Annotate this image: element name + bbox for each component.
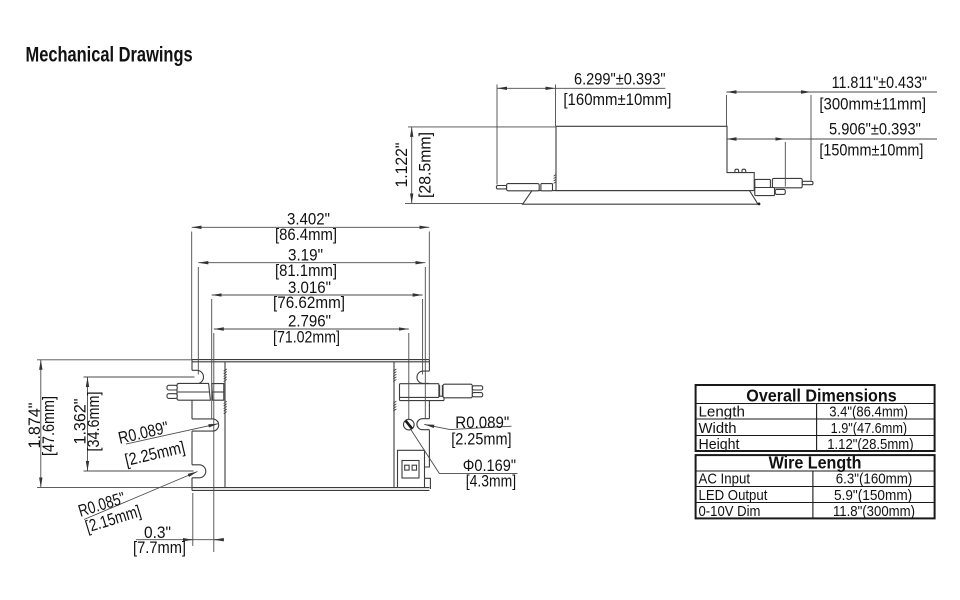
left bottom slot R0.085 bbox=[192, 465, 206, 478]
dim connector inner bbox=[402, 461, 419, 479]
dim line 2.796 bbox=[214, 328, 409, 330]
left wire flange segment divider bbox=[212, 391, 224, 393]
left hook slot bbox=[192, 370, 204, 383]
svg-text:3.4"(86.4mm): 3.4"(86.4mm) bbox=[829, 404, 908, 421]
knurl right edge upper bbox=[393, 369, 396, 382]
svg-text:Length: Length bbox=[699, 404, 745, 421]
knurl left edge upper bbox=[224, 369, 227, 382]
svg-text:5.9"(150mm): 5.9"(150mm) bbox=[834, 487, 912, 504]
svg-text:[47.6mm]: [47.6mm] bbox=[39, 396, 58, 456]
ext 3.016 right bbox=[422, 299, 424, 375]
svg-text:AC Input: AC Input bbox=[699, 471, 751, 488]
dim line 11.811 bbox=[727, 91, 812, 93]
dim block right edge lower bbox=[424, 478, 426, 487]
dim connector pin 1 bbox=[405, 465, 409, 470]
ext line height bottom bbox=[405, 202, 523, 204]
svg-text:[34.6mm]: [34.6mm] bbox=[84, 392, 103, 452]
svg-text:1.12"(28.5mm): 1.12"(28.5mm) bbox=[827, 436, 913, 453]
ext 3.402 right bbox=[428, 232, 430, 360]
dim line 3.016 bbox=[212, 294, 423, 296]
svg-text:11.8"(300mm): 11.8"(300mm) bbox=[833, 503, 915, 520]
left wire flange segment bbox=[212, 384, 224, 401]
svg-text:LED Output: LED Output bbox=[699, 487, 769, 504]
ext 0.3 left bbox=[192, 493, 194, 546]
svg-text:[4.3mm]: [4.3mm] bbox=[466, 471, 516, 490]
dim line 1.362 bbox=[87, 377, 89, 471]
dim line 0.3 bbox=[136, 539, 224, 541]
right lower connector bbox=[755, 188, 775, 196]
svg-text:[160mm±10mm]: [160mm±10mm] bbox=[563, 90, 671, 109]
ext line body right bbox=[726, 95, 728, 126]
svg-text:11.811"±0.433": 11.811"±0.433" bbox=[832, 73, 927, 92]
ext line dim wire tip bbox=[810, 95, 812, 181]
svg-text:[71.02mm]: [71.02mm] bbox=[273, 328, 340, 347]
dim 0.3 arrow right bbox=[214, 539, 223, 541]
dim line 5.906 bbox=[727, 138, 786, 140]
dim 0.3 arrow left bbox=[184, 539, 193, 541]
plate top edge outer bbox=[192, 359, 429, 361]
table 2 frame bbox=[696, 455, 935, 518]
right wire tip 2 bbox=[472, 393, 482, 397]
svg-text:[28.5mm]: [28.5mm] bbox=[416, 132, 435, 198]
dim line 1.874 bbox=[40, 360, 42, 488]
right lower wire tip bbox=[775, 189, 785, 194]
leader R0.089 left bbox=[126, 424, 218, 444]
body right edge bbox=[393, 362, 395, 488]
dim line 3.19 bbox=[198, 262, 425, 264]
ext 2.796 left long bbox=[213, 333, 215, 552]
junction dot bbox=[758, 203, 761, 206]
ext line led wire tip bbox=[784, 142, 786, 187]
svg-text:[76.62mm]: [76.62mm] bbox=[273, 293, 345, 312]
ext 1.362 bottom bbox=[84, 470, 194, 472]
table 2 column divider bbox=[812, 471, 814, 518]
table 1 row lines bbox=[696, 418, 935, 420]
ext 3.016 left bbox=[211, 299, 213, 419]
ext 3.19 right bbox=[424, 267, 426, 419]
ext 1.362 top bbox=[84, 376, 195, 378]
left wire tip 2 bbox=[167, 394, 177, 399]
knurl left edge lower bbox=[224, 401, 227, 414]
svg-text:Overall Dimensions: Overall Dimensions bbox=[746, 386, 897, 406]
ext line height top bbox=[408, 126, 556, 128]
ext 1.874 top bbox=[37, 359, 192, 361]
table 2 header row line bbox=[696, 470, 935, 472]
left wire connector body bbox=[177, 383, 210, 400]
dim line 3.402 bbox=[192, 226, 430, 228]
ext 3.402 left bbox=[191, 232, 193, 360]
ext 2.796 right bbox=[408, 333, 410, 419]
knurl right edge lower bbox=[393, 401, 396, 411]
right lower wire strip bbox=[400, 396, 445, 400]
svg-text:[7.7mm]: [7.7mm] bbox=[133, 538, 186, 557]
svg-text:[150mm±10mm]: [150mm±10mm] bbox=[819, 140, 923, 159]
leader phi 0.169 bbox=[411, 429, 518, 473]
svg-text:1.122": 1.122" bbox=[392, 143, 411, 188]
table 1 header row line bbox=[696, 403, 935, 405]
svg-text:Width: Width bbox=[699, 420, 737, 437]
dim line 6.299 bbox=[497, 87, 556, 89]
side view body outline bbox=[556, 126, 754, 190]
svg-text:Height: Height bbox=[699, 436, 741, 453]
ext 1.874 bottom bbox=[37, 486, 192, 488]
body left edge bbox=[224, 362, 226, 488]
right hook slot bbox=[417, 371, 429, 383]
table 2 row lines bbox=[696, 486, 935, 488]
right wire tip 1 bbox=[472, 386, 482, 390]
ext line body left bbox=[555, 85, 557, 127]
screw slot bbox=[406, 421, 412, 429]
svg-text:Mechanical Drawings: Mechanical Drawings bbox=[26, 44, 193, 68]
AC input wire connector big bbox=[507, 184, 540, 191]
dim line 1.122 bbox=[411, 127, 413, 203]
plate left edge segments bbox=[191, 360, 193, 491]
svg-text:[86.4mm]: [86.4mm] bbox=[275, 225, 337, 244]
table 1 column divider bbox=[816, 404, 818, 452]
ext 3.19 left bbox=[197, 267, 199, 375]
plate bottom edge outer bbox=[192, 489, 429, 491]
ledge bump 2 bbox=[742, 169, 746, 172]
right connector joint lines bbox=[440, 385, 443, 397]
knurl marks left body edge bbox=[554, 174, 557, 183]
plate top edge inner bbox=[192, 361, 429, 363]
svg-text:[300mm±11mm]: [300mm±11mm] bbox=[819, 95, 926, 114]
left wire connector divider bbox=[177, 391, 209, 393]
right upper connector segment 2 bbox=[772, 178, 802, 187]
right upper wire tip bbox=[802, 181, 813, 184]
svg-text:0-10V Dim: 0-10V Dim bbox=[699, 503, 761, 520]
base plate skirt bbox=[523, 191, 758, 205]
svg-text:5.906"±0.393": 5.906"±0.393" bbox=[829, 119, 921, 138]
plate right edge segments bbox=[425, 360, 430, 467]
plate bottom edge inner bbox=[192, 487, 429, 489]
leader R0.085 bbox=[84, 472, 198, 520]
right big connector bbox=[443, 384, 472, 398]
svg-text:6.299"±0.393": 6.299"±0.393" bbox=[574, 70, 666, 89]
screw head bbox=[404, 419, 415, 430]
ledge bump 1 bbox=[735, 169, 739, 172]
left wire tip 1 bbox=[167, 385, 177, 390]
svg-text:[2.25mm]: [2.25mm] bbox=[451, 429, 511, 448]
svg-text:1.9"(47.6mm): 1.9"(47.6mm) bbox=[831, 420, 908, 437]
plate bottom-right tab bbox=[425, 478, 431, 489]
AC input wire tip bbox=[496, 186, 506, 189]
left middle slot R0.089 bbox=[192, 419, 219, 431]
svg-text:6.3"(160mm): 6.3"(160mm) bbox=[836, 471, 913, 488]
dim connector pin 2 bbox=[412, 465, 416, 470]
leader R0.089 right bbox=[424, 424, 511, 429]
AC input wire small segment bbox=[541, 184, 553, 191]
right wire main bar bbox=[400, 384, 439, 398]
dim connector block bbox=[398, 450, 425, 487]
right upper connector segment 1 bbox=[755, 179, 771, 187]
ext line wire tip left bbox=[496, 85, 498, 185]
right middle slot R0.089 bbox=[417, 419, 429, 430]
table 1 frame bbox=[696, 385, 935, 451]
